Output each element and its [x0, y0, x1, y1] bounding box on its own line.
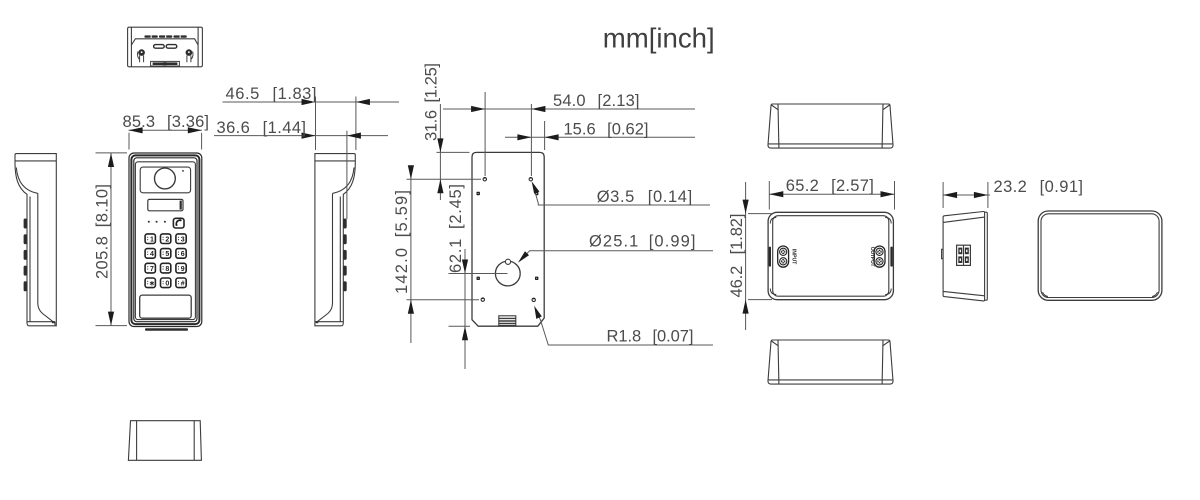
svg-text:Ø25.1 [0.99]: Ø25.1 [0.99] — [589, 232, 696, 250]
left side view bottom corner blob — [52, 321, 55, 323]
box INPUT terminal — [778, 246, 797, 267]
left side view key bumps — [24, 219, 27, 292]
keypad key 9 — [176, 263, 186, 273]
keypad camera lens — [155, 168, 176, 189]
keypad bottom view wall left — [136, 421, 138, 461]
keypad top view vent slot group 3 — [173, 35, 186, 38]
box front view inner face — [773, 216, 889, 297]
svg-text:9: 9 — [181, 266, 185, 273]
box side view terminal block — [957, 245, 971, 265]
plate cable hole notch — [505, 259, 510, 264]
dim 205.8 ext top — [96, 152, 128, 154]
box side slot right — [890, 247, 892, 267]
dim 23.2 ext right — [987, 182, 989, 208]
plate screw hole top-left — [483, 177, 486, 181]
keypad top view bottom cable tab — [151, 61, 180, 66]
keypad bottom reader panel — [140, 295, 192, 318]
right side view top inner curve — [333, 168, 355, 194]
box side view outline — [942, 211, 988, 300]
dim 23.2 line — [943, 194, 990, 196]
keypad key hash — [176, 278, 186, 288]
svg-text:46.5 [1.83]: 46.5 [1.83] — [226, 85, 317, 103]
box back view outer — [1038, 211, 1162, 300]
mounting plate outline — [472, 152, 544, 326]
right side view top band line — [315, 160, 355, 162]
plate bottom vent tab — [499, 316, 516, 326]
left side view top band line — [15, 160, 56, 162]
svg-text:54.0 [2.13]: 54.0 [2.13] — [553, 92, 640, 110]
svg-text:INPUT: INPUT — [790, 249, 796, 265]
keypad key 4 — [145, 249, 155, 259]
keypad name plate window — [148, 199, 183, 210]
box back view inner — [1041, 214, 1159, 298]
right side view body — [315, 154, 355, 326]
svg-text:23.2 [0.91]: 23.2 [0.91] — [994, 178, 1084, 196]
dim 85.3 line — [129, 129, 202, 131]
svg-text:142.0 [5.59]: 142.0 [5.59] — [393, 190, 411, 294]
svg-text:0: 0 — [165, 281, 169, 288]
keypad top view side wall right — [197, 27, 199, 67]
dim 36.6 line — [214, 135, 388, 137]
dim 15.6 arrows — [517, 134, 531, 140]
box side slot left — [769, 247, 771, 267]
dim 85.3 arrows — [129, 127, 143, 133]
svg-text:85.3 [3.36]: 85.3 [3.36] — [123, 113, 210, 131]
svg-text:65.2 [2.57]: 65.2 [2.57] — [786, 177, 874, 195]
dim 46.2 arrows — [743, 200, 749, 214]
dim 46.5 arrows — [302, 99, 316, 105]
plate screw hole top-right — [529, 177, 532, 181]
box side view terminal contacts — [958, 248, 969, 263]
box back view corner trims — [1040, 213, 1158, 297]
keypad top view screw boss right — [186, 49, 193, 62]
box side view top inner line — [943, 217, 985, 222]
keypad top view vent slot group 1 — [144, 35, 157, 38]
left side view front inner line — [29, 197, 31, 322]
plate clamp square bottom-right — [535, 277, 538, 280]
box side view back plate edge — [985, 212, 988, 300]
right side view bottom slab line — [315, 321, 343, 323]
right side view front inner line — [339, 197, 341, 322]
ext line hole level bottom — [407, 299, 480, 301]
box side view bottom inner line — [943, 291, 985, 295]
dim 31.6 ext plate-top — [437, 151, 470, 153]
keypad camera section — [140, 167, 190, 193]
dim 15.6 line — [505, 136, 695, 138]
keypad top view screw boss left — [138, 49, 145, 62]
keypad call button — [173, 218, 184, 228]
dim 36.6 arrows — [302, 133, 316, 139]
dim 205.8 line — [110, 153, 112, 326]
dim 85.3 ext right — [201, 133, 203, 150]
keypad front view inner panel — [135, 162, 195, 320]
svg-text:mm[inch]: mm[inch] — [603, 23, 715, 54]
dim 62.1 arrows — [462, 260, 468, 274]
dim 36.6 ext right — [346, 131, 348, 219]
keypad microphone dot — [182, 170, 184, 172]
keypad indicator dots — [148, 221, 166, 223]
plate clamp square top-left — [477, 192, 480, 195]
dim 46.5 ext left — [315, 97, 317, 151]
right side view bottom corner blob — [316, 321, 319, 323]
keypad top view pill opening right — [166, 45, 177, 49]
svg-text:15.6 [0.62]: 15.6 [0.62] — [564, 120, 649, 138]
dim 85.3 ext left — [128, 133, 130, 150]
box side view left bump — [942, 249, 944, 258]
svg-text:2: 2 — [165, 237, 169, 244]
left side view top inner curve — [16, 168, 38, 194]
left side view panel edge and bottom diagonal — [38, 193, 53, 321]
junction box top view — [768, 104, 893, 148]
dim 62.1 ext circle-center — [449, 273, 508, 275]
left side view body — [15, 154, 56, 326]
dim 62.1 line — [464, 249, 466, 369]
dim 23.2 arrows — [943, 192, 957, 198]
dim 15.6 ext left — [530, 104, 532, 176]
box front view outer shell — [768, 212, 893, 299]
svg-text:62.1 [2.45]: 62.1 [2.45] — [447, 184, 465, 273]
svg-text:205.8 [8.10]: 205.8 [8.10] — [94, 184, 112, 279]
left side view slab end — [54, 322, 56, 326]
dim 46.5 line — [223, 101, 400, 103]
dim 205.8 arrows — [108, 153, 114, 167]
svg-text:8: 8 — [165, 266, 169, 273]
plate screw hole bottom-left — [481, 298, 484, 302]
dim 54.0 arrows — [471, 106, 485, 112]
svg-text:∗: ∗ — [149, 281, 155, 288]
right side view key bumps — [343, 219, 346, 292]
left side view bottom slab line — [27, 321, 55, 323]
box front corner trims — [770, 218, 891, 295]
dim 65.2 ext left — [768, 181, 770, 210]
svg-text:1: 1 — [150, 237, 154, 244]
keypad top view pill opening left — [154, 45, 165, 49]
keypad key 8 — [161, 263, 171, 273]
right side view panel edge and bottom diagonal — [318, 193, 333, 321]
keypad key 5 — [161, 249, 171, 259]
svg-text:46.2 [1.82]: 46.2 [1.82] — [728, 214, 746, 298]
dim 205.8 ext bottom — [96, 325, 128, 327]
dim 65.2 ext right — [894, 181, 896, 210]
leader R1.8 — [534, 306, 713, 346]
dim 15.6 ext right — [544, 121, 546, 150]
box OUTPUT terminal — [869, 246, 885, 267]
plate clamp square top-right — [535, 192, 538, 195]
svg-text:36.6 [1.44]: 36.6 [1.44] — [217, 119, 307, 137]
dim 46.2 ext top — [748, 213, 772, 215]
keypad bottom protruding tab — [145, 328, 188, 331]
svg-text:3: 3 — [181, 237, 185, 244]
keypad bottom view wall right — [193, 421, 195, 461]
svg-text:#: # — [181, 281, 185, 288]
dim 65.2 line — [769, 193, 894, 195]
dim 46.2 ext bottom — [748, 299, 772, 301]
svg-text:R1.8 [0.07]: R1.8 [0.07] — [607, 328, 694, 346]
keypad top view outer housing — [128, 27, 203, 67]
keypad top view side wall left — [130, 27, 132, 67]
dim 62.1 ext plate-bottom — [449, 325, 471, 327]
keypad front view outer bezel — [129, 153, 202, 327]
dim 65.2 arrows — [769, 191, 783, 197]
svg-text:7: 7 — [150, 266, 154, 273]
dim 54.0 line — [443, 108, 695, 110]
dim 54.0 ext left — [484, 92, 486, 176]
svg-text:4: 4 — [150, 251, 154, 258]
ext line hole level top — [407, 178, 482, 180]
dim 142.0 arrows — [408, 165, 414, 179]
keypad top view vent slot group 2 — [159, 35, 172, 38]
keypad top view body front edge — [131, 39, 198, 45]
svg-text:OUTPUT: OUTPUT — [869, 247, 875, 268]
svg-text:5: 5 — [165, 251, 169, 258]
keypad key 3 — [176, 234, 186, 244]
dim 31.6 arrows — [437, 138, 443, 152]
plate screw hole bottom-right — [532, 298, 535, 302]
svg-text:31.6 [1.25]: 31.6 [1.25] — [423, 63, 441, 141]
dim 31.6 line — [439, 104, 441, 200]
keypad key 0 — [161, 278, 171, 288]
keypad key 2 — [161, 234, 171, 244]
dim 46.5 ext right — [355, 97, 357, 151]
keypad key star — [145, 278, 155, 288]
dim 142.0 line — [410, 167, 412, 343]
keypad bottom view outline — [128, 421, 201, 461]
keypad key 1 — [145, 234, 155, 244]
svg-text:6: 6 — [181, 251, 185, 258]
junction box bottom view — [768, 340, 893, 384]
leader dia 25.1 — [518, 232, 713, 262]
dim 23.2 ext left — [942, 182, 944, 208]
keypad key 7 — [145, 263, 155, 273]
plate cable hole circle — [495, 261, 520, 286]
plate clamp square bottom-left — [477, 277, 480, 280]
dim 46.2 line — [745, 182, 747, 330]
leader dia 3.5 — [532, 181, 710, 206]
keypad key 6 — [176, 249, 186, 259]
svg-text:Ø3.5 [0.14]: Ø3.5 [0.14] — [597, 188, 693, 206]
